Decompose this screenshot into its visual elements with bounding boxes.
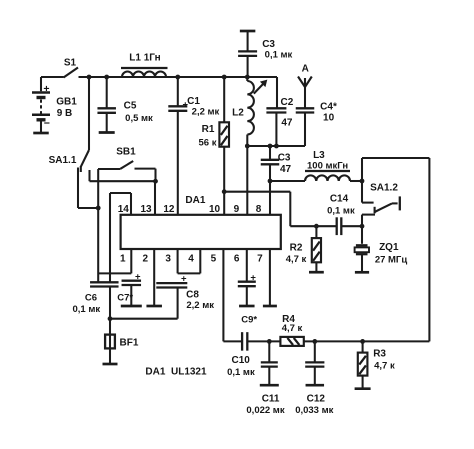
svg-text:14: 14 [118,204,130,215]
svg-text:100 мкГн: 100 мкГн [307,161,348,172]
svg-text:0,1 мк: 0,1 мк [227,367,255,378]
svg-text:C5: C5 [124,100,137,111]
svg-text:L2: L2 [232,107,244,118]
svg-text:C2: C2 [281,97,294,108]
svg-text:4: 4 [188,254,194,265]
svg-text:0,5 мк: 0,5 мк [125,113,153,124]
svg-text:C12: C12 [307,394,326,405]
svg-text:56 к: 56 к [199,137,217,148]
svg-text:+: + [250,273,256,284]
svg-text:L1 1Гн: L1 1Гн [129,52,160,63]
svg-text:S1: S1 [64,58,77,69]
svg-text:2,2 мк: 2,2 мк [192,107,220,118]
svg-text:9: 9 [234,204,240,215]
svg-text:4,7 к: 4,7 к [374,361,395,372]
svg-text:2,2 мк: 2,2 мк [186,300,214,311]
svg-text:C7*: C7* [117,293,133,304]
svg-text:0,022 мк: 0,022 мк [246,405,284,416]
svg-text:4,7 к: 4,7 к [286,254,307,265]
svg-text:5: 5 [211,254,217,265]
svg-text:R2: R2 [290,243,303,254]
svg-text:R3: R3 [373,349,386,360]
svg-text:R1: R1 [202,124,215,135]
svg-text:C3: C3 [262,39,275,50]
svg-text:−: − [44,118,50,130]
svg-text:C10: C10 [232,355,251,366]
svg-text:SB1: SB1 [116,146,136,157]
svg-text:DA1: DA1 [185,195,205,206]
svg-text:0,1 мк: 0,1 мк [72,304,100,315]
svg-text:+: + [183,99,189,110]
svg-text:DA1 UL1321: DA1 UL1321 [145,366,207,377]
svg-text:47: 47 [280,164,292,175]
svg-text:1: 1 [120,254,126,265]
svg-text:7: 7 [257,254,263,265]
svg-text:+: + [135,271,141,282]
svg-text:47: 47 [281,118,293,129]
svg-text:10: 10 [209,204,221,215]
svg-text:6: 6 [234,254,240,265]
svg-text:13: 13 [140,204,152,215]
svg-text:0,1 мк: 0,1 мк [327,205,355,216]
svg-text:3: 3 [165,254,171,265]
svg-text:C9*: C9* [241,315,257,326]
svg-text:2: 2 [143,254,149,265]
svg-text:10: 10 [323,112,335,123]
svg-text:+: + [181,274,187,285]
svg-text:0,1 мк: 0,1 мк [265,49,293,60]
svg-text:C11: C11 [262,394,280,405]
svg-text:C14: C14 [330,194,349,205]
svg-text:27 МГц: 27 МГц [375,254,408,265]
svg-text:+: + [43,83,49,95]
svg-text:12: 12 [163,204,175,215]
svg-text:9 В: 9 В [57,108,73,119]
svg-text:C3: C3 [278,152,291,163]
svg-text:ZQ1: ZQ1 [379,242,399,253]
svg-text:8: 8 [256,204,262,215]
svg-text:C1: C1 [187,96,200,107]
svg-text:0,033 мк: 0,033 мк [295,405,333,416]
svg-text:C4*: C4* [320,102,337,113]
svg-text:A: A [302,63,309,74]
svg-text:SA1.1: SA1.1 [49,155,77,166]
svg-text:GB1: GB1 [56,97,77,108]
svg-text:BF1: BF1 [120,337,139,348]
svg-text:4,7 к: 4,7 к [282,323,303,334]
svg-text:C6: C6 [85,293,97,304]
svg-text:SA1.2: SA1.2 [370,182,398,193]
